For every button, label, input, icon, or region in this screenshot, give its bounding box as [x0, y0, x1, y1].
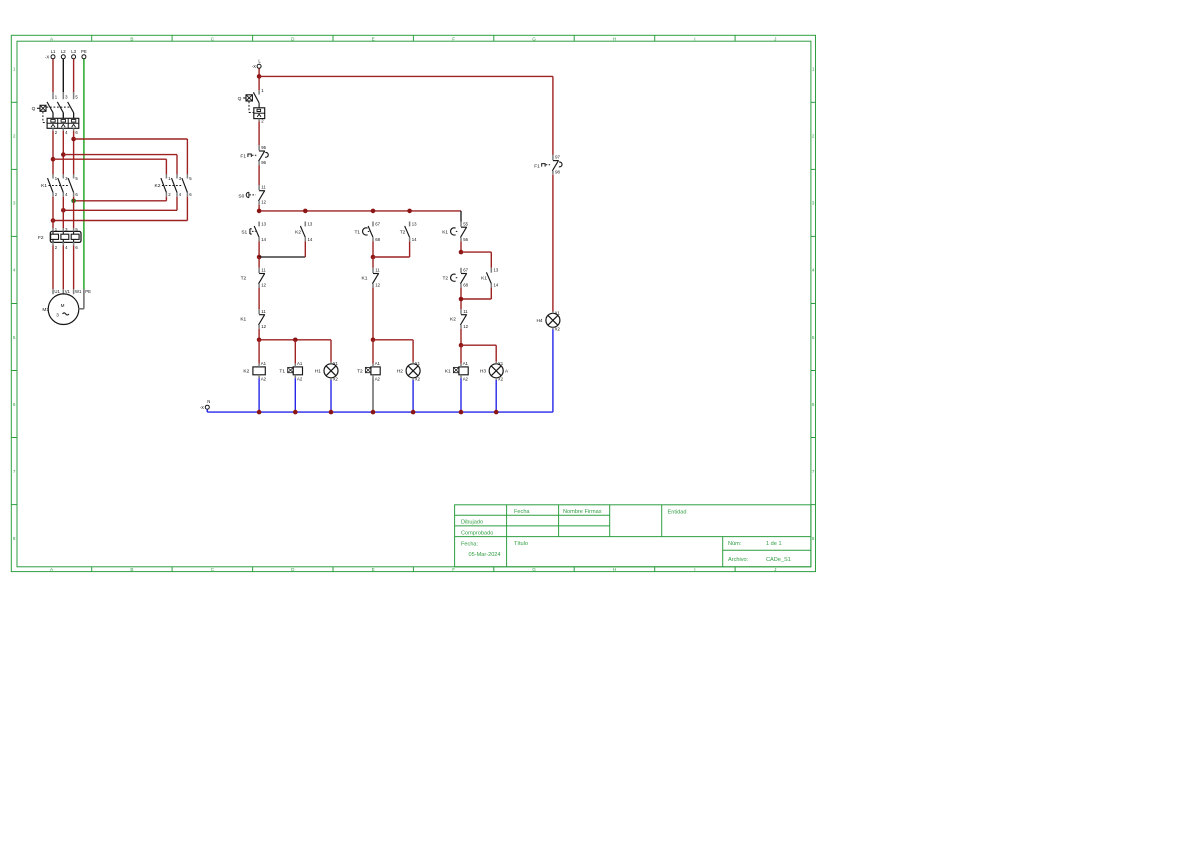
- svg-text:Q: Q: [238, 96, 242, 102]
- svg-text:H3: H3: [480, 369, 486, 375]
- svg-text:13: 13: [494, 268, 499, 273]
- svg-text:T2: T2: [442, 275, 448, 281]
- svg-text:4: 4: [812, 268, 815, 273]
- svg-text:1: 1: [812, 67, 815, 72]
- svg-text:Título: Título: [514, 541, 528, 547]
- svg-text:05-Mar-2024: 05-Mar-2024: [469, 552, 501, 558]
- svg-text:K1: K1: [41, 183, 47, 189]
- svg-text:3: 3: [56, 312, 59, 317]
- svg-text:Dibujado: Dibujado: [461, 520, 483, 526]
- svg-text:1 de 1: 1 de 1: [766, 541, 782, 547]
- svg-text:A1: A1: [297, 361, 303, 366]
- svg-text:6: 6: [812, 402, 815, 407]
- svg-text:K2: K2: [243, 369, 249, 375]
- svg-text:12: 12: [261, 324, 266, 329]
- svg-text:-X: -X: [200, 405, 204, 410]
- svg-text:F1: F1: [534, 163, 540, 169]
- svg-text:11: 11: [463, 309, 468, 314]
- svg-text:Fecha: Fecha: [514, 509, 530, 515]
- svg-text:K2: K2: [295, 229, 301, 235]
- svg-text:H4: H4: [536, 318, 542, 324]
- svg-text:M1: M1: [42, 307, 49, 313]
- svg-text:11: 11: [261, 185, 266, 190]
- svg-text:T2: T2: [241, 275, 247, 281]
- svg-text:K1: K1: [445, 369, 451, 375]
- svg-text:H: H: [613, 567, 616, 572]
- svg-text:S1: S1: [241, 229, 247, 235]
- svg-text:5: 5: [13, 335, 16, 340]
- svg-text:T2: T2: [400, 229, 406, 235]
- svg-text:J: J: [774, 36, 776, 41]
- svg-text:12: 12: [375, 283, 380, 288]
- svg-text:13: 13: [412, 222, 417, 227]
- svg-text:W1: W1: [75, 289, 82, 294]
- svg-text:H2: H2: [397, 369, 403, 375]
- svg-text:PE: PE: [85, 289, 91, 294]
- svg-text:E: E: [372, 567, 375, 572]
- svg-text:A2: A2: [261, 377, 267, 382]
- svg-text:-X: -X: [252, 64, 256, 69]
- svg-text:K1: K1: [240, 317, 246, 323]
- svg-text:K2: K2: [450, 317, 456, 323]
- svg-text:H: H: [613, 36, 616, 41]
- svg-text:Comprobado: Comprobado: [461, 530, 493, 536]
- svg-text:CADe_S1: CADe_S1: [766, 557, 791, 563]
- svg-text:3: 3: [812, 201, 815, 206]
- svg-text:X1: X1: [333, 361, 339, 366]
- svg-text:X1: X1: [555, 310, 561, 315]
- svg-text:14: 14: [261, 237, 266, 242]
- svg-text:Núm:: Núm:: [728, 541, 742, 547]
- svg-text:67: 67: [463, 268, 468, 273]
- svg-text:G: G: [532, 567, 536, 572]
- svg-text:X2: X2: [555, 326, 561, 331]
- svg-text:13: 13: [308, 222, 313, 227]
- svg-text:U1: U1: [54, 289, 60, 294]
- svg-text:12: 12: [261, 200, 266, 205]
- svg-text:H1: H1: [315, 369, 321, 375]
- svg-text:B: B: [130, 36, 133, 41]
- svg-text:S0: S0: [238, 193, 244, 199]
- svg-text:K2: K2: [155, 183, 161, 189]
- svg-text:5: 5: [812, 335, 815, 340]
- svg-text:V1: V1: [65, 289, 71, 294]
- svg-text:T2: T2: [357, 369, 363, 375]
- svg-text:56: 56: [463, 237, 468, 242]
- svg-text:L3: L3: [71, 49, 76, 54]
- svg-text:11: 11: [261, 309, 266, 314]
- svg-text:13: 13: [261, 222, 266, 227]
- svg-text:K1: K1: [481, 275, 487, 281]
- svg-text:2: 2: [812, 134, 815, 139]
- svg-text:A2: A2: [297, 377, 303, 382]
- svg-text:PE: PE: [81, 49, 87, 54]
- svg-text:4: 4: [13, 268, 16, 273]
- svg-text:I: I: [694, 567, 695, 572]
- svg-text:68: 68: [375, 237, 380, 242]
- svg-text:-X: -X: [45, 54, 49, 59]
- svg-text:Q: Q: [32, 106, 36, 112]
- svg-text:Archivo:: Archivo:: [728, 557, 749, 563]
- svg-text:K1: K1: [362, 275, 368, 281]
- svg-text:A2: A2: [463, 377, 469, 382]
- svg-text:F: F: [452, 36, 455, 41]
- svg-text:7: 7: [812, 469, 815, 474]
- svg-text:6: 6: [13, 402, 16, 407]
- svg-text:A1: A1: [463, 361, 469, 366]
- svg-text:Nombre Firmas: Nombre Firmas: [563, 509, 602, 515]
- svg-text:M: M: [61, 303, 65, 308]
- svg-text:X1: X1: [415, 361, 421, 366]
- svg-text:T1: T1: [354, 229, 360, 235]
- svg-text:11: 11: [261, 268, 266, 273]
- svg-text:11: 11: [375, 268, 380, 273]
- svg-text:8: 8: [812, 536, 815, 541]
- svg-text:Entidad: Entidad: [668, 510, 687, 516]
- svg-text:N: N: [207, 399, 210, 404]
- svg-text:T1: T1: [279, 369, 285, 375]
- svg-text:I: I: [694, 36, 695, 41]
- svg-text:F1: F1: [240, 154, 246, 160]
- svg-text:12: 12: [463, 324, 468, 329]
- svg-text:X2: X2: [498, 377, 504, 382]
- svg-text:98: 98: [555, 170, 560, 175]
- svg-text:68: 68: [463, 283, 468, 288]
- svg-text:Fecha:: Fecha:: [461, 541, 479, 547]
- svg-text:97: 97: [555, 155, 560, 160]
- svg-text:F: F: [452, 567, 455, 572]
- svg-text:3: 3: [13, 201, 16, 206]
- svg-text:X2: X2: [415, 377, 421, 382]
- svg-text:A2: A2: [375, 377, 381, 382]
- svg-text:B: B: [130, 567, 133, 572]
- svg-text:L2: L2: [61, 49, 66, 54]
- svg-text:67: 67: [375, 222, 380, 227]
- svg-text:7: 7: [13, 469, 16, 474]
- svg-text:55: 55: [463, 222, 468, 227]
- svg-text:G: G: [532, 36, 536, 41]
- svg-text:X2: X2: [333, 377, 339, 382]
- svg-text:96: 96: [261, 160, 266, 165]
- svg-text:1: 1: [13, 67, 16, 72]
- svg-text:A1: A1: [375, 361, 381, 366]
- svg-text:E: E: [372, 36, 375, 41]
- svg-text:14: 14: [308, 237, 313, 242]
- svg-text:8: 8: [13, 536, 16, 541]
- svg-text:X1: X1: [498, 361, 504, 366]
- svg-text:95: 95: [261, 145, 266, 150]
- svg-text:12: 12: [261, 283, 266, 288]
- svg-text:14: 14: [412, 237, 417, 242]
- svg-text:A1: A1: [261, 361, 267, 366]
- svg-text:2: 2: [13, 134, 16, 139]
- svg-text:L1: L1: [51, 49, 56, 54]
- svg-text:14: 14: [494, 283, 499, 288]
- svg-text:K1: K1: [442, 229, 448, 235]
- svg-text:J: J: [774, 567, 776, 572]
- svg-text:F2: F2: [38, 235, 44, 241]
